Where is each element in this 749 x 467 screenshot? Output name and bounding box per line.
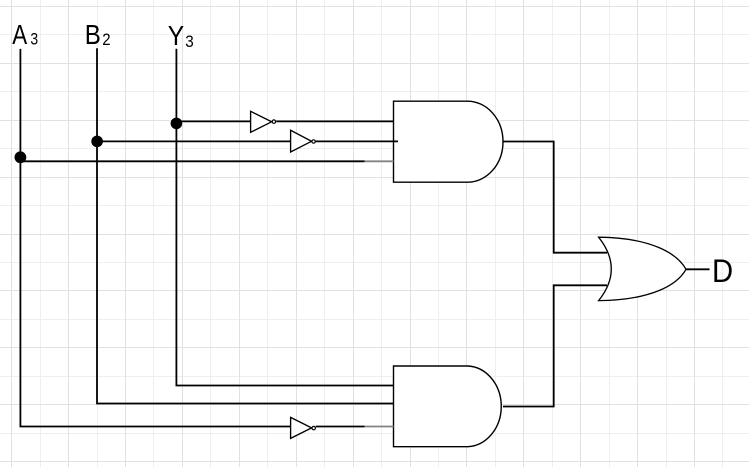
- junction on A3: [15, 151, 27, 163]
- node Y3 label: [168, 19, 194, 51]
- inverter X1: [251, 111, 276, 132]
- svg-text:A: A: [12, 20, 27, 51]
- svg-text:B: B: [85, 18, 101, 50]
- wire A3 vertical and bottom run to inverter X3: [20, 49, 290, 427]
- svg-text:3: 3: [185, 32, 194, 51]
- wire B2 vertical and bottom run to U2 input 2: [97, 48, 394, 403]
- junction on B2: [91, 136, 103, 148]
- wire A3 branch to U1 input 3: [20, 160, 364, 162]
- wire Y3 branch to inverter X1: [176, 120, 250, 122]
- wire inverter X3 output: [316, 426, 365, 428]
- and gate U1: [394, 101, 504, 182]
- wire Y3 vertical and bottom run to U2 input 1: [176, 49, 393, 386]
- wire B2 branch to inverter X2: [97, 140, 290, 142]
- wire gray stub into U1 input 3: [365, 160, 394, 162]
- inverter X2: [291, 130, 316, 152]
- svg-text:D: D: [712, 252, 733, 289]
- svg-text:Y: Y: [168, 19, 184, 51]
- wire inverter X2 output to U1 input 2: [316, 140, 398, 142]
- wire gray stub into U2 input 3: [365, 426, 394, 428]
- svg-text:3: 3: [30, 30, 38, 49]
- junction on Y3: [171, 118, 183, 130]
- node B2 label: [85, 18, 111, 50]
- node A3 label: [12, 20, 38, 51]
- wire U3 output to D: [686, 268, 710, 270]
- or gate U3: [599, 237, 686, 300]
- inverter X3: [291, 417, 316, 438]
- svg-text:2: 2: [102, 31, 110, 49]
- wire U1 output to U3 input 1: [503, 142, 607, 253]
- wire inverter X1 output to U1 input 1: [276, 120, 394, 122]
- and gate U2: [394, 366, 502, 447]
- wire U2 output to U3 input 2: [503, 285, 607, 406]
